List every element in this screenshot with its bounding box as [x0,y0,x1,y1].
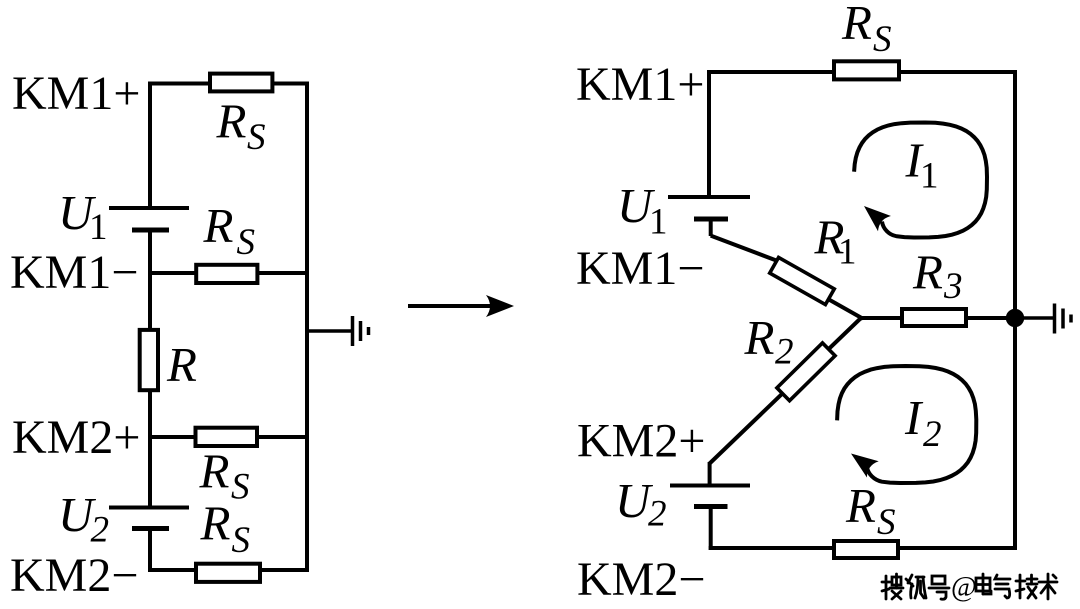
svg-text:2: 2 [91,510,110,551]
svg-text:1: 1 [920,156,939,197]
watermark glyph 号 [929,576,949,599]
wire: right vertical [1013,70,1017,550]
svg-text:S: S [247,117,266,158]
wire: left vertical bottom (U2 minus plate to bottom wire) [148,529,152,573]
ground symbol left: bar 3 [367,327,371,335]
resistor RS top-right (box) [834,61,899,79]
resistor R2 (rotated box) [777,343,835,401]
svg-text:1: 1 [649,202,668,243]
wire: diagonal R1 to junction [828,299,863,319]
watermark 搜狐号@电气技术 (hand-drawn glyphs) [882,572,1057,603]
ground symbol left: bar 2 [359,321,363,341]
wire: left vertical top (KM1+ corner to U1 plate) [148,82,152,209]
resistor RS bottom-left (box) [196,564,260,582]
svg-text:R: R [912,245,943,300]
node dot [1006,309,1024,327]
svg-text:S: S [873,19,892,60]
svg-text:S: S [231,467,250,508]
wire: KM2+ horizontal [148,435,307,439]
watermark glyph 电 [976,574,991,594]
battery U1 negative plate [132,228,169,233]
resistor RS top-left (box) [210,74,272,92]
wire: top horizontal [707,70,1015,74]
wire: left vertical mid (U1 minus plate through R to U2 plate) [148,230,152,508]
svg-text:R: R [200,496,231,551]
watermark glyph 术 [1039,574,1057,599]
wire: diagonal U1 to R1 [711,236,779,262]
svg-text:KM1+: KM1+ [576,58,704,111]
battery U1 positive plate [109,206,189,210]
arrow shaft [408,304,498,308]
svg-text:KM1+: KM1+ [12,67,140,120]
svg-text:KM1−: KM1− [10,246,138,299]
battery U1 right positive plate [668,195,750,199]
current loop I2 [837,366,976,483]
ground symbol right: bar 3 [1069,315,1073,323]
arrow head [486,295,514,317]
svg-text:2: 2 [775,332,794,373]
wire: ground stub left circuit [307,329,352,333]
svg-text:R: R [166,337,197,392]
current loop I1 [854,123,987,238]
svg-text:3: 3 [943,266,963,307]
current loop I2 arrowhead [851,454,879,478]
resistor RS on KM1- wire (box) [196,265,257,283]
watermark glyph 狐 [906,575,926,598]
resistor R3 (box) [902,309,966,326]
ground symbol right: bar 2 [1061,309,1065,329]
svg-text:@: @ [951,572,977,603]
wire: top horizontal [148,82,307,86]
ground symbol right: bar 1 [1053,304,1057,334]
battery U2 positive plate [109,506,189,510]
svg-text:1: 1 [89,207,108,248]
battery U2 negative plate [132,526,169,531]
svg-text:R: R [203,198,234,253]
wire: bottom horizontal right circuit [709,546,1017,550]
wire: KM1- horizontal [148,271,307,275]
svg-text:I: I [904,390,924,445]
wire: stub below U1 [709,219,713,236]
watermark glyph 技 [1016,575,1037,598]
resistor RS on KM2+ wire (box) [196,428,258,446]
svg-text:KM2−: KM2− [577,553,705,606]
wire: ground stub right circuit [1015,316,1053,320]
resistor R vertical (box) [140,330,158,390]
resistor RS bottom-right (box) [834,541,898,558]
wire: R3 horizontal (junction to node) [861,316,1015,320]
svg-text:R: R [845,478,876,533]
svg-text:KM2+: KM2+ [12,411,140,464]
svg-text:S: S [237,222,256,263]
wire: stub below U2 right [709,507,713,551]
svg-text:S: S [877,502,896,543]
ground symbol left: bar 1 [351,316,355,346]
current loop I1 arrowhead [864,206,891,231]
svg-text:S: S [232,520,251,561]
battery U2 right positive plate [670,484,750,488]
svg-text:R: R [216,94,247,149]
svg-text:2: 2 [923,414,942,455]
wire: KM2+ corner vertical to U2 [708,462,712,486]
svg-text:KM2−: KM2− [10,549,138,602]
svg-text:1: 1 [838,232,857,273]
svg-text:2: 2 [648,494,667,535]
svg-text:KM1−: KM1− [576,242,704,295]
watermark glyph 气 [995,575,1010,598]
wire: left vertical top (KM1+ corner to U1 plate) [707,70,711,197]
svg-text:R: R [841,0,872,50]
svg-text:R: R [199,444,230,499]
watermark glyph 搜 [882,574,903,599]
wire: diagonal junction to KM2+ corner [710,317,862,464]
battery U2 right negative plate [694,504,728,509]
svg-text:R: R [744,310,775,365]
battery U1 right negative plate [694,217,728,222]
wire: right vertical [305,82,309,573]
svg-text:KM2+: KM2+ [577,415,705,468]
wire: bottom horizontal [148,568,309,572]
resistor R1 (rotated box) [770,257,835,304]
